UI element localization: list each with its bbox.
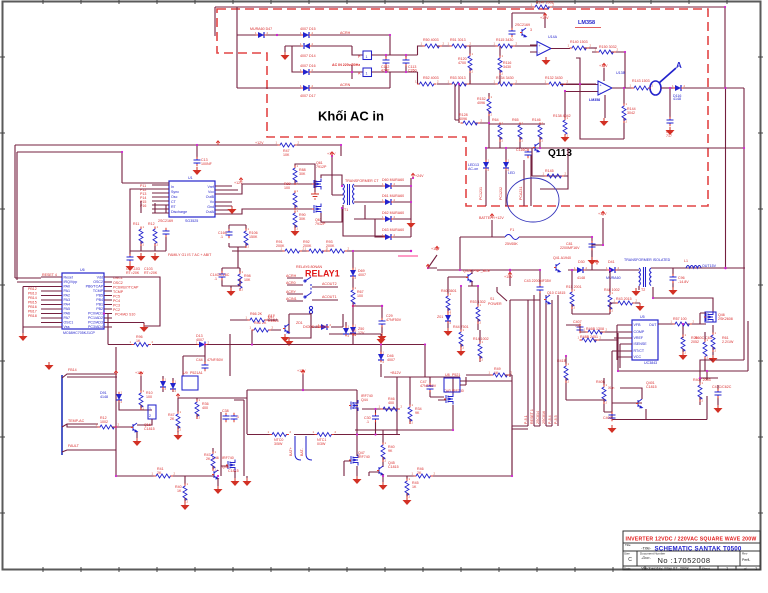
svg-text:T2: T2: [641, 288, 645, 292]
svg-text:PA1: PA1: [64, 289, 71, 293]
svg-text:PA5: PA5: [64, 307, 71, 311]
wire L1 to switcher: [653, 268, 726, 355]
resistor R115 3430: [496, 44, 514, 48]
svg-text:RELAY6 80NAN: RELAY6 80NAN: [296, 265, 323, 269]
svg-text:C43 2200MF35V: C43 2200MF35V: [524, 279, 552, 283]
svg-text:PA7: PA7: [64, 316, 71, 320]
svg-text:SCHEMATIC SANTAK T0500: SCHEMATIC SANTAK T0500: [654, 546, 741, 553]
svg-text:ISENSE: ISENSE: [634, 342, 648, 346]
diode D41 MURA60: [609, 267, 615, 273]
svg-text:+12V: +12V: [598, 212, 607, 216]
transistor Q401 C1815: [638, 399, 642, 408]
svg-text:4700: 4700: [458, 61, 466, 65]
resistor R53 3013: [450, 82, 468, 86]
transistor Q41 A1940: [556, 263, 560, 272]
ground R47: [174, 432, 183, 440]
diode D15 4007: [303, 32, 309, 38]
wire sense lower: [566, 356, 612, 412]
svg-text:LM358: LM358: [578, 20, 595, 26]
ground hbridge left low: [246, 476, 248, 478]
wire Q40B: [448, 270, 472, 313]
svg-text:.1: .1: [220, 235, 223, 239]
node circle A: [650, 81, 661, 95]
resistor R40R 9K vertical: [381, 443, 385, 461]
svg-text:2SC2169: 2SC2169: [158, 219, 173, 223]
op-amp U14A: [537, 42, 551, 56]
svg-text:PB12: PB12: [28, 287, 37, 291]
svg-text:of: of: [744, 567, 747, 571]
bus line left blue: [61, 375, 63, 455]
wire main 12V horizontal: [437, 269, 639, 271]
capacitor C26 717: [669, 88, 671, 118]
diode D61 MURA60: [385, 199, 391, 205]
wire pink net segment: [398, 255, 418, 257]
svg-text:2K: 2K: [417, 471, 422, 475]
svg-text:30K: 30K: [299, 217, 306, 221]
svg-text:PA4: PA4: [64, 303, 71, 307]
resistor R12 vertical: [153, 227, 157, 245]
svg-text:2SC814: 2SC814: [536, 411, 540, 424]
svg-text:4148: 4148: [673, 97, 681, 101]
wire AC row2: [285, 46, 363, 55]
U1 left pin stubs: [152, 185, 169, 213]
svg-text:Sheet: Sheet: [702, 567, 710, 571]
wire hbridge mid rail: [247, 434, 400, 436]
fuse F1: [505, 235, 519, 240]
ground rectifier: [407, 220, 416, 228]
resistor R144 3042 vertical: [576, 58, 624, 139]
capacitor C14C: [219, 272, 226, 279]
LED14: [505, 148, 507, 206]
resistor R98 10K: [238, 272, 242, 290]
svg-text:P521A1: P521A1: [190, 371, 203, 375]
junction L1 out: [724, 267, 727, 270]
svg-text:2SK2608: 2SK2608: [718, 317, 733, 321]
svg-text:LM358: LM358: [589, 98, 600, 102]
resistor R128 4046: [461, 121, 479, 125]
wire T2 secondary: [651, 268, 745, 275]
resistor R48 1002 vertical: [608, 293, 612, 311]
svg-text:.1: .1: [236, 415, 239, 419]
svg-text:OSC2: OSC2: [113, 281, 123, 285]
resistor R46R 400: [381, 407, 399, 411]
resistor R91 200K: [283, 249, 301, 253]
svg-text:R64: R64: [492, 118, 499, 122]
svg-text:100: 100: [284, 186, 290, 190]
svg-text:R147 2002: R147 2002: [536, 1, 554, 5]
svg-text:100NF: 100NF: [201, 162, 213, 166]
svg-text:Vcc: Vcc: [208, 190, 214, 194]
svg-text:47NF/50V: 47NF/50V: [420, 384, 437, 388]
wire U5 out: [658, 313, 706, 335]
svg-text:2K: 2K: [170, 417, 175, 421]
svg-text:PC3/AD4: PC3/AD4: [88, 325, 103, 329]
resistor R41B vertical: [564, 364, 568, 382]
svg-text:4096: 4096: [477, 101, 485, 105]
MCU left pin stubs: [41, 277, 62, 327]
svg-text:R115 3430: R115 3430: [496, 38, 513, 42]
capacitor C114: [129, 251, 131, 255]
svg-text:PB17: PB17: [28, 310, 37, 314]
wire AC row4: [237, 72, 390, 88]
mosfet Q47 IRF740: [351, 455, 358, 466]
svg-text:S1: S1: [490, 297, 494, 301]
svg-text:OSC2: OSC2: [93, 280, 103, 284]
svg-text:PA0: PA0: [64, 285, 71, 289]
ground U14A: [542, 57, 551, 65]
wire R140-R150: [584, 47, 597, 49]
wire AC row3: [292, 46, 363, 79]
svg-text:ACRH: ACRH: [286, 274, 297, 278]
svg-text:OUT15V: OUT15V: [702, 264, 717, 268]
mosfet Q61 7912P: [314, 179, 321, 190]
resistor R89 100 vertical: [293, 191, 297, 209]
svg-text:PC4/AD S10: PC4/AD S10: [115, 313, 135, 317]
svg-text:10K: 10K: [244, 278, 251, 282]
svg-text:FB14: FB14: [68, 368, 77, 372]
svg-text:R146: R146: [532, 118, 541, 122]
svg-text:C41C/C62C: C41C/C62C: [712, 385, 732, 389]
svg-text:+15V: +15V: [504, 275, 513, 279]
ground Q17: [285, 338, 294, 346]
wire hbridge top rail: [247, 374, 357, 435]
svg-text:10K: 10K: [283, 153, 290, 157]
resistor R152 4096 vertical: [487, 97, 491, 115]
svg-text:2SC2169: 2SC2169: [515, 23, 530, 27]
wire AC row1: [237, 35, 390, 55]
svg-text:7912P: 7912P: [315, 222, 326, 226]
svg-text:RT/CT: RT/CT: [634, 349, 645, 353]
resistor R65 201 vertical: [518, 123, 522, 141]
svg-text:OUT: OUT: [649, 323, 657, 327]
svg-text:Sync: Sync: [171, 190, 179, 194]
svg-text:4148: 4148: [100, 395, 108, 399]
wire ladder row2 mid: [437, 83, 596, 85]
svg-text:3430: 3430: [503, 65, 511, 69]
svg-text:AC IN 220v/50Hz: AC IN 220v/50Hz: [332, 63, 360, 67]
relay contact pins: [287, 278, 303, 301]
transistor Q45 C1815: [379, 466, 383, 475]
resistor R134 3430: [496, 82, 514, 86]
svg-text:R48B 2451: R48B 2451: [580, 335, 598, 339]
wire MCU right loop: [104, 277, 160, 327]
svg-text:TEMP-AC: TEMP-AC: [68, 419, 85, 423]
diode D13 4007: [199, 342, 205, 348]
svg-text:R51 3013: R51 3013: [450, 38, 466, 42]
svg-text:3/5W: 3/5W: [274, 442, 283, 446]
diode D62 MURA60: [385, 216, 391, 222]
diode D17 4007: [303, 85, 309, 91]
resistor R15 2001 vertical: [570, 290, 574, 308]
svg-text:In: In: [171, 185, 174, 189]
svg-text:P521: P521: [452, 373, 460, 377]
svg-text:2: 2: [149, 414, 151, 418]
ground RT: [137, 253, 146, 261]
wire to node A: [649, 87, 651, 89]
resistor R46 2K: [414, 474, 432, 478]
svg-text:4007 D15: 4007 D15: [300, 27, 316, 31]
transformer T1 CT: [343, 184, 354, 205]
ground opto row: [281, 334, 290, 342]
ground left rail: [48, 361, 50, 363]
ground R61: [709, 355, 718, 363]
svg-text:LED: LED: [508, 171, 515, 175]
svg-text:ZD1: ZD1: [296, 321, 303, 325]
ground Q45: [379, 482, 388, 490]
wire bottom out row: [387, 429, 528, 476]
wire gate row left: [178, 398, 247, 476]
wire switcher mid links: [566, 325, 632, 340]
svg-text:U8: U8: [445, 373, 450, 377]
svg-text:2SC816: 2SC816: [542, 411, 546, 424]
svg-text:C116C: C116C: [516, 148, 527, 152]
svg-text:PC1231: PC1231: [479, 187, 483, 200]
wire +12V top rail: [15, 145, 232, 280]
resistor R116 3430 vertical: [499, 46, 501, 84]
wire right sense rail: [683, 335, 718, 378]
svg-text:P-8.4: P-8.4: [548, 415, 552, 424]
inductor L1: [686, 266, 701, 269]
wire opto U8 links: [430, 377, 466, 397]
svg-text:L1: L1: [684, 259, 688, 263]
diode D91 4148: [116, 394, 122, 400]
resistor R96 1K: [132, 343, 150, 347]
svg-text:Reset: Reset: [64, 276, 73, 280]
ground Q47: [353, 476, 362, 484]
svg-text:OSC1: OSC1: [64, 321, 74, 325]
svg-text:R50 4003: R50 4003: [423, 38, 439, 42]
svg-text:400: 400: [388, 401, 394, 405]
svg-text:BAT-: BAT-: [300, 447, 304, 456]
transistor Q2 2SC2169 cluster: [512, 13, 545, 29]
svg-text:7912P: 7912P: [316, 165, 327, 169]
wire T1 secondary to diodes: [343, 186, 385, 237]
svg-text:47NF50V: 47NF50V: [386, 318, 402, 322]
svg-text:PC1232: PC1232: [499, 187, 503, 200]
resistor R140 1503: [570, 46, 588, 50]
ground R98: [222, 279, 240, 288]
svg-text:4148: 4148: [577, 276, 585, 280]
resistor R146 1K3 vertical: [538, 123, 542, 141]
resistor R145 3032: [545, 174, 563, 178]
wire U5 left pins: [612, 325, 632, 412]
svg-text:Vc: Vc: [210, 200, 214, 204]
svg-text:U1: U1: [188, 176, 193, 180]
MCU right pin stubs: [104, 277, 112, 327]
wire to right edge drop: [683, 88, 744, 360]
wire T1 primary: [321, 156, 343, 222]
bus entry FB14: [62, 374, 117, 378]
wire relay coil loop: [289, 313, 311, 338]
svg-text:+12V: +12V: [599, 64, 608, 68]
resistor R46B 1308: [586, 330, 604, 334]
capacitor C13 100NF: [196, 145, 198, 158]
svg-text:OutB: OutB: [206, 195, 215, 199]
mosfet Q43 IRF740: [446, 394, 453, 405]
svg-text:C14C/C16C: C14C/C16C: [210, 273, 230, 277]
resistor R60C C63 vertical: [703, 340, 707, 358]
svg-text:100: 100: [146, 395, 152, 399]
wire AC caps row: [372, 46, 424, 84]
svg-text:C1815: C1815: [228, 469, 239, 473]
svg-text:2.2/1W: 2.2/1W: [722, 340, 734, 344]
svg-text:VCC: VCC: [634, 355, 642, 359]
svg-text:P-8.5: P-8.5: [554, 415, 558, 424]
svg-text:PA2: PA2: [64, 294, 71, 298]
resistor R138 4042 vertical: [564, 91, 566, 118]
wire AC bridge left drop: [236, 7, 238, 88]
svg-text:U13B: U13B: [616, 71, 626, 75]
svg-text:.1: .1: [366, 420, 369, 424]
zener Z50 12V: [350, 327, 356, 333]
bus entry TEMP-AC: [62, 424, 98, 427]
svg-text:PCA231: PCA231: [519, 187, 523, 200]
resistor R106 150K: [244, 229, 248, 247]
ground R43: [636, 303, 645, 311]
resistor R120 4700 vertical: [469, 46, 471, 84]
wire gate lines to push-pull: [280, 180, 314, 209]
transistor Q16 C1815: [133, 423, 137, 432]
resistor R49 1K: [491, 373, 509, 377]
zener Z01: [445, 315, 451, 321]
LED13: [485, 148, 487, 206]
optocoupler U9 P521A1: [182, 376, 198, 390]
svg-text:RT=20K: RT=20K: [144, 271, 158, 275]
zener Z02 5V: [343, 328, 349, 334]
capacitor CT 2SC2169: [163, 229, 170, 236]
resistor R45 1K vertical: [405, 479, 409, 497]
mosfet Q44 IRF740: [351, 400, 358, 411]
svg-text:Size: Size: [624, 552, 630, 556]
resistor R88 30K vertical: [293, 166, 297, 184]
pin end markers: [98, 7, 719, 503]
ground Z01: [444, 328, 453, 336]
resistor R57 100: [673, 322, 691, 326]
svg-text:4007 D14: 4007 D14: [300, 54, 316, 58]
resistor R46Q 2K: [252, 328, 270, 332]
thermistor NTC0 3/5W: [270, 433, 288, 437]
svg-text:R11: R11: [133, 222, 139, 226]
capacitor C44 47NF50V: [202, 363, 209, 370]
transistor Q40B PNP_BCE: [468, 273, 472, 282]
svg-text:R66 2K: R66 2K: [250, 312, 263, 316]
svg-text:U5: U5: [640, 315, 645, 319]
wire C16C R106 loop: [229, 190, 246, 247]
ground D46 branch: [377, 336, 386, 344]
svg-text:R57 100: R57 100: [673, 317, 687, 321]
resistor R40 3601 vertical: [446, 294, 450, 312]
wire Q113 top row: [455, 84, 545, 124]
wire U14A out: [530, 45, 570, 52]
mosfet Q46L IRF740: [228, 460, 235, 471]
diode D47 MURA60: [258, 32, 264, 38]
svg-text:C260: C260: [408, 69, 417, 73]
capacitor C96: [670, 275, 677, 282]
svg-text:C1815: C1815: [646, 385, 657, 389]
resistor R92 200K: [307, 249, 325, 253]
svg-text:9K: 9K: [415, 411, 420, 415]
svg-text:RESET 4: RESET 4: [42, 273, 57, 277]
resistor R44 7501 vertical: [459, 330, 463, 348]
svg-text:4007 D17: 4007 D17: [300, 94, 316, 98]
svg-text:OutA: OutA: [206, 210, 215, 214]
junction divider-rectifier: [410, 250, 412, 252]
svg-text:4007: 4007: [387, 358, 395, 362]
capacitor C407: [577, 325, 584, 332]
svg-text:F1: F1: [510, 228, 514, 232]
svg-text:Q41 A1940: Q41 A1940: [553, 256, 571, 260]
svg-text:2K: 2K: [206, 457, 211, 461]
svg-text:IRQ/Vpp: IRQ/Vpp: [64, 280, 78, 284]
svg-text:MURA60 D47: MURA60 D47: [250, 27, 272, 31]
wire S1 power branch: [497, 270, 510, 377]
svg-text:POWER: POWER: [488, 302, 502, 306]
svg-text:C1815: C1815: [388, 465, 399, 469]
capacitor C39: [231, 414, 238, 421]
svg-text:R143 1503: R143 1503: [632, 79, 650, 83]
IC U5 UC3843: [632, 320, 658, 360]
resistor R67 100 vertical: [351, 288, 355, 306]
transistor Q113: [535, 143, 539, 152]
resistor R41 2K: [154, 474, 172, 478]
resistor R48B XL vertical: [602, 385, 606, 403]
ground R40: [181, 502, 190, 510]
svg-text:CT: CT: [171, 200, 177, 204]
svg-text:C44: C44: [196, 358, 203, 362]
svg-text:Date:: Date:: [624, 567, 631, 571]
transistor Q46B C1815: [214, 470, 218, 479]
svg-text:PB0/TCAP: PB0/TCAP: [86, 285, 104, 289]
ground C400: [608, 425, 617, 433]
ground R45: [403, 497, 412, 505]
transistor Q17 C1815: [285, 324, 289, 333]
svg-text:2200MF16V: 2200MF16V: [560, 246, 580, 250]
svg-text:A: A: [676, 61, 682, 70]
resistor R26 2052 vertical: [681, 335, 685, 353]
ground R90: [294, 225, 296, 228]
CONTENT: [215, 1, 725, 99]
svg-text:Q10 C1815: Q10 C1815: [547, 291, 565, 295]
svg-text:Q113: Q113: [548, 148, 572, 159]
wire opto column: [116, 347, 154, 476]
U1 right pin stubs: [215, 186, 232, 214]
svg-text:VFB: VFB: [634, 323, 642, 327]
svg-text:PC0/AD1: PC0/AD1: [88, 312, 103, 316]
svg-text:COMP: COMP: [634, 330, 645, 334]
wire R128 column: [459, 84, 489, 148]
svg-text:PB1: PB1: [96, 303, 103, 307]
svg-text:2052: 2052: [691, 340, 699, 344]
capacitor C16C: [226, 230, 233, 237]
svg-text:PC4: PC4: [113, 299, 120, 303]
svg-text:100: 100: [357, 294, 363, 298]
svg-text:RT=20K: RT=20K: [126, 271, 140, 275]
power arrows: [216, 141, 220, 145]
ground MCU left: [19, 333, 28, 341]
resistor R47 2K vertical: [176, 412, 180, 430]
svg-text:DIODE ZENER: DIODE ZENER: [303, 325, 328, 329]
svg-text:AC-on: AC-on: [468, 167, 478, 171]
diode D63 MURA60: [385, 234, 391, 240]
resistor R40 1K vertical: [183, 484, 187, 502]
ground CT: [151, 253, 160, 261]
svg-text:U9: U9: [183, 371, 188, 375]
svg-text:TCMP: TCMP: [113, 290, 124, 294]
capacitor C43 2200MF35V: [510, 270, 540, 300]
junction AC row1: [276, 34, 278, 36]
svg-text:4007 D16: 4007 D16: [300, 64, 316, 68]
LED D93: [170, 383, 176, 389]
